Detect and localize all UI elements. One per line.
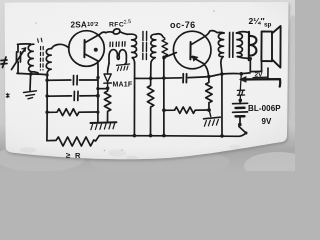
faint smudges [20, 145, 241, 161]
battery BT1 [233, 100, 248, 123]
core T2 [142, 32, 144, 60]
node left rail dots [46, 73, 49, 76]
inductor T2 secondary [151, 34, 157, 77]
resistor R6 [206, 77, 212, 110]
wire right rail [221, 74, 223, 136]
wire Q1 emitter rail [97, 61, 99, 122]
inductor RFC [106, 29, 128, 35]
capacitor C4 (hatched) [237, 74, 244, 100]
antenna mark [1, 57, 7, 68]
ground (tank) [24, 91, 37, 99]
label "2V" tap [253, 68, 268, 79]
wire speaker return [250, 59, 261, 72]
wire T3 secondary top [236, 32, 248, 33]
capacitor C3 [182, 74, 184, 83]
label RFC [109, 19, 132, 29]
node mid junction [162, 108, 166, 112]
wire tank top [18, 43, 31, 45]
wire gnd lead [29, 75, 32, 91]
schematic ink [1, 16, 281, 160]
wire bottom rail [99, 135, 239, 138]
resistor R2 [104, 88, 110, 122]
asterisk mark [6, 93, 9, 97]
wire T2 secondary top [156, 34, 163, 38]
speaker voice coil [249, 32, 257, 60]
wire L2 top to Q1 base [52, 44, 69, 48]
wire to diode [108, 64, 109, 72]
wire to Q2 base [164, 53, 176, 58]
transistor Q1 [69, 31, 105, 67]
inductor L1 (antenna coil) [28, 44, 38, 73]
wire stub [98, 88, 107, 90]
resistor R3 (volume) [162, 38, 168, 58]
wire tank bottom [17, 73, 47, 74]
resistor R1 [47, 109, 97, 116]
wire Q2 collector [205, 31, 218, 37]
label battery "BL-006P 9V" [248, 104, 281, 126]
wire mid rail [163, 56, 165, 135]
paper sheet [5, 2, 289, 159]
ground (bar with hatches) [91, 122, 117, 129]
wire Q1 collector [100, 32, 106, 34]
core marks T1 [110, 42, 125, 47]
node [162, 56, 166, 60]
scan background texture [0, 0, 295, 171]
ground (R5/R6 junction) [204, 110, 221, 126]
switch S1 [238, 123, 247, 137]
ground (T1 centre tap) [117, 63, 130, 71]
capacitor C2 [47, 91, 97, 100]
variable capacitor VC1 [12, 44, 26, 73]
wire T3 secondary bottom [237, 57, 250, 59]
inductor T3 primary [217, 32, 224, 73]
resistor R7 (big bottom) [47, 136, 99, 146]
inductor T3 secondary [236, 33, 242, 57]
core T3 [228, 32, 230, 57]
label R7 [66, 151, 81, 160]
diode D1 [104, 71, 112, 88]
node tank-gnd junction [29, 72, 32, 75]
label speaker "2 1/4 sp" [249, 16, 272, 29]
wire T2 primary bottom to rail [133, 63, 135, 136]
transistor Q2 [173, 31, 211, 69]
core marks [39, 47, 41, 71]
annotation arrow [240, 76, 281, 86]
wire left rail [46, 74, 48, 141]
label Q1 "2SA 102" [71, 21, 99, 30]
wire top rail [135, 77, 182, 80]
inductor T1 secondary (arches with centre tap) [109, 50, 126, 64]
resistor R5 [164, 107, 209, 113]
inductor T2 primary [128, 34, 137, 63]
inductor L2 (coupling coil) [46, 49, 51, 74]
capacitor C1 [47, 76, 97, 85]
node [106, 86, 110, 90]
speaker LS1 [261, 26, 280, 68]
wire Q2 emitter [204, 64, 209, 77]
resistor R4 [147, 78, 153, 135]
